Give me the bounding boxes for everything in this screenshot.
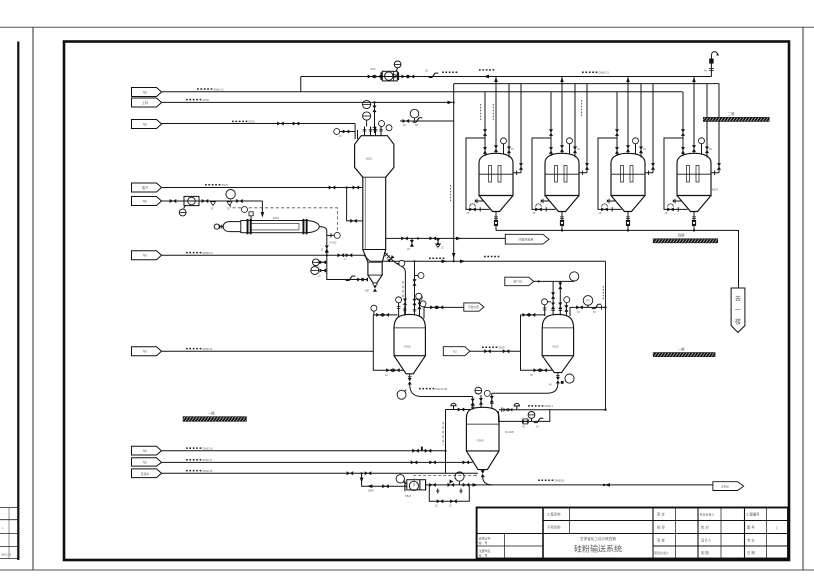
N2 label box on line [443, 347, 470, 356]
flag N2 inlet 1 [132, 88, 162, 97]
valve V-b2 [479, 398, 483, 405]
flag N2 inlet 6 [132, 251, 162, 260]
bin top nozzles [358, 127, 382, 140]
flag to dust collector [464, 303, 484, 311]
battery limit bar left [183, 417, 247, 422]
pipe: N2 flag9 line to cone [162, 461, 473, 463]
pipe: V103 vent to conveying drop [570, 307, 606, 316]
svg-text:工程编号: 工程编号 [746, 512, 760, 517]
valve V-b1 [471, 399, 475, 406]
V103 dome riser right [565, 303, 567, 316]
F006 cone [394, 356, 425, 374]
pipe: outlet into discharge header [483, 477, 493, 485]
valve V-g10 [576, 305, 583, 309]
control signal dashed [231, 199, 338, 232]
bin section joints [363, 177, 386, 283]
valve V-n9 [320, 269, 327, 273]
battery limit bar lower right [653, 353, 715, 357]
junction dot [538, 280, 540, 282]
svg-text:硅粉输送系统: 硅粉输送系统 [574, 544, 622, 554]
valve V-t1 [368, 75, 375, 79]
discharge instrument [404, 390, 406, 392]
svg-text:DN50.C2: DN50.C2 [203, 252, 214, 255]
vessel F009 send tank [466, 407, 499, 451]
svg-text:校 审: 校 审 [657, 525, 665, 530]
flow arrow left glyph [605, 483, 610, 487]
vessel B002 assembly [532, 77, 589, 231]
valve V-b3 [490, 396, 494, 403]
vessel B004 assembly [664, 77, 721, 231]
valve V-f4 [386, 368, 393, 372]
V103 dome instruments [548, 301, 551, 303]
svg-text:工程名称: 工程名称 [547, 512, 561, 517]
F006 dome base line [394, 327, 425, 329]
vent PG gauge [587, 305, 589, 307]
N2 purge line to down-comer [400, 120, 454, 122]
gauges lower [416, 294, 422, 300]
pipe: N2 into V103 jacket [470, 350, 521, 352]
bypass regulator [534, 418, 544, 423]
instrument LS on bin [363, 112, 371, 120]
svg-text:V103: V103 [552, 345, 559, 349]
valve V-x1 [325, 246, 329, 253]
valve V-n6 [357, 278, 364, 282]
flow arrow to flag [456, 237, 461, 241]
V103 feed risers [553, 281, 560, 315]
vent gooseneck [711, 52, 719, 56]
valve V-b20 black [508, 408, 512, 412]
flag N2 inlet 5 [132, 197, 162, 206]
V103 outlet [557, 373, 559, 377]
pump HB13 [405, 480, 426, 492]
valve V-b12 [382, 484, 389, 488]
junction dot down-comer [453, 260, 455, 262]
exchanger vent nozzle [250, 216, 252, 221]
valve V-n5 [346, 253, 353, 257]
valve V-n2 [202, 199, 209, 203]
drain stubs [438, 489, 461, 494]
gauge beside drop [415, 275, 419, 277]
pipe: N2 header M3 from flag 1 [162, 91, 683, 93]
pipe: top blower header [301, 76, 712, 78]
valve V-t7 [343, 130, 350, 134]
valve V-f2 [376, 313, 383, 317]
flag N2 inlet 3 [132, 120, 162, 129]
valve V-m1 [413, 279, 417, 286]
battery limit bar mid right [653, 239, 718, 243]
valve V-n4 [338, 253, 345, 257]
junction dot on drop [604, 306, 606, 308]
svg-text:DN50.18: DN50.18 [203, 470, 213, 473]
valve V-t5 [277, 122, 284, 126]
paper left edge (between sheets) [32, 27, 34, 570]
svg-text:DN50.17: DN50.17 [203, 459, 213, 462]
valve V-g8 [558, 283, 562, 290]
svg-text:B004: B004 [712, 188, 719, 192]
svg-text:子项名称: 子项名称 [547, 525, 561, 530]
flow arrow down [360, 478, 364, 483]
svg-text:27-002: 27-002 [329, 242, 337, 245]
regulator on purge line [413, 118, 423, 123]
svg-text:审 定: 审 定 [657, 512, 665, 517]
pipe: N2 line flag5 to exchanger [162, 200, 263, 202]
instrument stem [381, 127, 382, 129]
svg-text:专 业: 专 业 [747, 538, 755, 543]
bin bottom valve [373, 285, 377, 292]
bypass PI [531, 418, 533, 421]
pipe: bin outlet rotary feed to mid vessel [384, 252, 405, 315]
valve V-b13 [429, 483, 436, 487]
F009 feed riser left [472, 397, 474, 410]
svg-text:B101: B101 [366, 157, 373, 161]
pipe: water flag10 line [162, 472, 479, 474]
svg-text:F006: F006 [404, 345, 411, 349]
svg-text:日 期: 日 期 [747, 550, 755, 555]
rotameter assembly [184, 196, 199, 205]
arrow into down-comer [448, 101, 453, 105]
control valve box [523, 419, 528, 424]
svg-text:上料: 上料 [142, 100, 149, 105]
sample cooler instruments [321, 262, 327, 270]
adjacent sheet revision table [0, 508, 18, 559]
junction dot at corner [604, 409, 606, 411]
svg-text:N2: N2 [143, 350, 147, 354]
vent valve [709, 59, 713, 64]
flange tick [501, 408, 503, 412]
valve V-g5 [484, 349, 491, 353]
svg-text:108: 108 [365, 289, 370, 293]
svg-text:HB13: HB13 [405, 495, 412, 498]
valve V-b4 [458, 408, 465, 412]
valve V-b17 [437, 499, 444, 503]
flag feed inlet 2 [132, 98, 162, 107]
vessel V103 buffer hopper [542, 314, 573, 355]
flow arrow on suction [367, 484, 372, 488]
junction dot [326, 254, 328, 256]
svg-text:二期: 二期 [728, 111, 734, 116]
svg-text:N2: N2 [143, 461, 147, 465]
valve V-b19 black [504, 408, 508, 412]
svg-text:DN50.1: DN50.1 [545, 405, 554, 408]
valve V-b7 [411, 460, 418, 464]
main drawing border frame [64, 42, 789, 561]
svg-text:蒸汽: 蒸汽 [142, 185, 149, 190]
valve V-b14 [448, 483, 455, 487]
gauge on blower [396, 68, 398, 71]
junction dot on down-comer [453, 101, 455, 103]
svg-text:图 号: 图 号 [747, 525, 755, 530]
valve V-b15 [463, 483, 470, 487]
svg-text:75x5: 75x5 [370, 68, 376, 71]
svg-text:N2: N2 [453, 350, 457, 354]
flag carrier gas [505, 277, 534, 286]
nozzle flange ticks [363, 129, 383, 131]
valve V-t3 [402, 75, 409, 79]
flow controller circle [226, 190, 235, 199]
paper right edge [802, 27, 804, 570]
valve V-f5 [393, 368, 400, 372]
valve V-c4 [430, 236, 437, 240]
svg-text:DN80.C3: DN80.C3 [599, 72, 610, 75]
svg-text:DN50: DN50 [499, 347, 506, 350]
pressure gauge PI big [414, 118, 416, 121]
pipe: F009 left nozzle [446, 409, 471, 411]
svg-text:N2: N2 [143, 449, 147, 453]
svg-text:编 号: 编 号 [479, 540, 488, 545]
pipe: N2 flag7 line into jacket [162, 350, 374, 352]
V103 cone [542, 356, 573, 373]
valve V-f3 [383, 313, 390, 317]
rotary valve glyph [387, 255, 394, 262]
svg-text:校 对: 校 对 [701, 525, 709, 530]
flow arrow up into line [325, 248, 329, 252]
pipe: bin discharge line to flag [386, 237, 506, 239]
level signal dashed [402, 281, 404, 299]
flow arrow on conveying line [442, 260, 447, 264]
pipe: riser from N2 flag line to top header [300, 77, 302, 92]
outlet flange ticks 45deg [385, 253, 390, 258]
exit flag conveying [713, 482, 744, 491]
F009 feed riser right [491, 393, 493, 408]
valve V-c1 black [403, 119, 410, 123]
valve V-b11 [365, 471, 372, 475]
flow arrow on conveying line 2 [460, 260, 465, 264]
valve V-s2 [353, 186, 360, 190]
pipe: pump discharge header [426, 484, 713, 486]
title block row1 labels [479, 512, 779, 558]
junction dot mid feed [413, 260, 415, 262]
svg-text:专业负责人: 专业负责人 [700, 512, 715, 517]
F006 dome riser 2 [404, 306, 406, 316]
junction dot [444, 450, 446, 452]
feed drop from flag2 into bin [374, 102, 376, 133]
svg-text:四期: 四期 [678, 233, 684, 238]
valve V-f1 [408, 378, 412, 385]
svg-text:设计人: 设计人 [701, 538, 712, 543]
svg-text:DN80.16: DN80.16 [203, 447, 213, 450]
valve V-g3 [534, 368, 541, 372]
F006 dome riser LT [398, 303, 400, 317]
pipe: exchanger outlet to N2 line [319, 227, 327, 256]
junction dot B002 [561, 229, 563, 231]
svg-text:DN25: DN25 [222, 184, 229, 187]
steam branch to lower nozzle [347, 188, 363, 221]
pipe: V103 discharge to F009 [492, 384, 558, 394]
svg-text:楼: 楼 [735, 318, 741, 326]
outlet instrument [565, 374, 574, 383]
vent flange ticks [709, 69, 714, 71]
svg-text:S0411.34: S0411.34 [1, 554, 12, 557]
svg-text:载气剂: 载气剂 [513, 280, 522, 284]
regulator on vent [592, 304, 602, 309]
flange ticks [601, 305, 603, 309]
drain drop 2 with funnel [437, 238, 439, 243]
F006 jacket loop [373, 315, 403, 370]
flag water inlet 10 [132, 469, 162, 478]
junction dot [361, 472, 363, 474]
valve V-s1 [329, 186, 336, 190]
svg-text:2B48: 2B48 [368, 490, 374, 493]
pipe: carrier gas to V103 dome [534, 280, 574, 282]
vessel B101 storage bin outline [355, 136, 394, 285]
junction dot on discharge [603, 484, 605, 486]
flag N2 inlet 9 [132, 458, 162, 466]
pipe: N2 into exchanger top [261, 201, 263, 213]
pipe: left standpipe [445, 410, 447, 474]
svg-text:N2: N2 [143, 199, 147, 203]
svg-text:N2: N2 [143, 122, 147, 126]
heat exchanger E001 shell [214, 219, 319, 234]
flow arrow on header [484, 75, 489, 79]
instrument stem [366, 120, 368, 126]
valve V-n1 [170, 199, 177, 203]
svg-text:审 查: 审 查 [657, 538, 665, 543]
valve V-g12 [551, 303, 555, 310]
riser tick [421, 447, 423, 451]
valve V-t2 [375, 75, 382, 79]
valve V-g9 [564, 305, 568, 312]
svg-text:编 号: 编 号 [479, 553, 488, 558]
svg-text:F009: F009 [477, 439, 484, 443]
pipe: F006 discharge to F009 [410, 384, 473, 396]
F006 vent riser to dust flag [424, 307, 464, 318]
valve V-c3 [401, 236, 408, 240]
pipe: N2 line flag6 [162, 255, 371, 261]
valve V-n7 [361, 278, 368, 282]
valve V-g2 [529, 313, 536, 317]
paper bottom edge [0, 569, 814, 571]
outlet block glyph [561, 381, 564, 384]
junction dot [417, 237, 419, 239]
valve V-f6 [418, 303, 422, 310]
title block grid lines [477, 508, 788, 559]
svg-text:项目负责人: 项目负责人 [654, 550, 669, 555]
svg-text:至收尘器: 至收尘器 [468, 305, 479, 309]
zigzag valve on branch [346, 276, 356, 281]
valve V-n3 [236, 199, 243, 203]
pipe: feed drop to mid vessel from conveying line [414, 261, 416, 315]
valve V-b8 [429, 460, 436, 464]
svg-text:去外送: 去外送 [721, 484, 729, 488]
pipe: conveying line to silos [370, 260, 606, 262]
svg-text:一期: 一期 [678, 346, 684, 351]
jacket instrument [373, 311, 375, 315]
paper top edge [0, 26, 814, 28]
valve V-f7 [430, 305, 437, 309]
discharge instrument [459, 482, 461, 485]
valve V-g11 [556, 377, 560, 384]
valve V-b9 [463, 460, 470, 464]
svg-text:甘肃省化工设计院四期: 甘肃省化工设计院四期 [580, 536, 616, 541]
F009 weld line [466, 423, 499, 425]
drain funnel d1 [211, 202, 216, 207]
arrow into exchanger [261, 212, 265, 218]
pipe: manifold M2 [454, 83, 720, 85]
exchanger inner tubes [251, 223, 299, 230]
valve V-m2 [413, 299, 417, 306]
valve V-c0 black [373, 106, 377, 113]
relief cap right [514, 403, 519, 409]
junction vent riser [710, 56, 712, 77]
adjacent sheet border (left) [17, 42, 19, 561]
pipe: discharge collector header [496, 230, 739, 288]
valve V-g7 [551, 292, 555, 299]
V103 jacket loop [521, 315, 552, 370]
flag N2 inlet 8 [132, 446, 162, 455]
svg-text:DN80.13: DN80.13 [214, 88, 224, 91]
svg-text:DN80.B1: DN80.B1 [555, 480, 566, 483]
svg-text:PG: PG [586, 299, 590, 303]
vent instrument [242, 207, 248, 213]
F009 bottom outlet [482, 470, 484, 472]
flag internal circulation [505, 234, 549, 244]
svg-text:N2: N2 [143, 254, 147, 258]
pipe: N2 flag8 line [162, 450, 446, 452]
dashed skid boundary [414, 475, 477, 486]
svg-text:内循环启用: 内循环启用 [518, 237, 533, 242]
bin inner wall line [364, 177, 366, 249]
branch to bin fluidizing [327, 255, 356, 279]
pipe: steam line from flag to bin [162, 187, 363, 189]
pipe: F009 pressurization line right [499, 409, 606, 411]
svg-text:DN50.14: DN50.14 [203, 348, 213, 351]
valve V-t4 [408, 75, 415, 79]
relief cap left [451, 403, 456, 409]
F009 cone [466, 451, 499, 470]
instrument LT on bin [363, 100, 371, 108]
svg-text:资质证书: 资质证书 [479, 536, 491, 541]
vessel B003 assembly [598, 77, 655, 231]
valve V-g6 [503, 349, 510, 353]
drain drop 1 [411, 238, 413, 247]
pipe: feed line from flag 2 to down-comer [162, 101, 453, 103]
valve V-b18 [450, 499, 457, 503]
flag N2 inlet 7 [132, 347, 162, 356]
pump bypass loop [429, 485, 469, 501]
valve V-f8 [437, 305, 444, 309]
junction dot B003 [627, 229, 629, 231]
valve V-g1 [523, 313, 530, 317]
valve V-t6 [293, 122, 300, 126]
svg-text:3C-40/B: 3C-40/B [505, 431, 514, 434]
valve V-g13 [558, 303, 562, 310]
svg-text:制 图: 制 图 [701, 550, 709, 555]
instrument PT on bin [379, 121, 385, 127]
F006 outlet [409, 374, 411, 378]
vent valve box [249, 212, 253, 216]
pipe: N2 line from flag 3 [162, 124, 356, 140]
valve V-g4 [540, 368, 547, 372]
junction dot B004 [693, 229, 695, 231]
battery limit bar top right [703, 117, 769, 121]
svg-text:注册师证: 注册师证 [479, 548, 491, 553]
pipe into bin skirt [356, 279, 368, 281]
V103 dome riser left [544, 305, 546, 316]
valve V-b6 [425, 449, 432, 453]
valve V-f9 [403, 299, 407, 306]
pressure regulator on header [429, 73, 439, 78]
svg-text:N2: N2 [143, 90, 147, 94]
F006 dome riser 3 [419, 299, 421, 317]
title block outer frame [477, 508, 788, 559]
flow arrow right [473, 483, 478, 487]
pipe: pump suction [362, 473, 408, 486]
svg-text:DN50: DN50 [203, 99, 210, 102]
valve V-s3 [350, 219, 357, 223]
outlet gauge tap [327, 234, 334, 236]
valve V-b16 [481, 471, 485, 478]
valve V-n8 [320, 260, 327, 264]
